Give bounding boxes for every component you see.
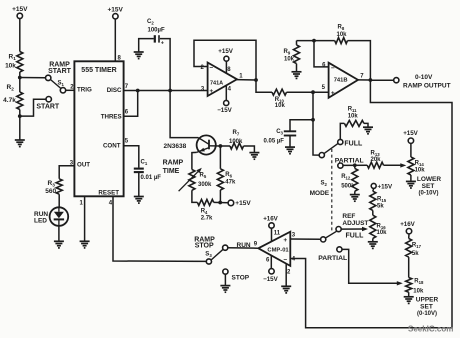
resistor R1 [17, 52, 23, 73]
svg-text:0.05 µF: 0.05 µF [264, 139, 285, 145]
U3 plus symbol [283, 237, 287, 244]
svg-text:555 TIMER: 555 TIMER [81, 67, 116, 74]
ground (left column) [15, 140, 25, 147]
label START [36, 104, 60, 111]
pin label RESET [98, 190, 119, 197]
label R16 10k [377, 223, 388, 236]
wire CONT to C1 [124, 146, 139, 168]
U3 minus symbol [283, 256, 287, 263]
LED run (D1) [50, 207, 69, 226]
svg-text:PARTIAL: PARTIAL [335, 157, 364, 164]
svg-text:−: − [331, 65, 335, 72]
wire R12 to ground [354, 191, 356, 194]
wire collector junction to R6 [219, 146, 221, 169]
label R10 10k [275, 97, 286, 109]
svg-text:R12: R12 [341, 174, 351, 181]
label R17 5k [412, 242, 422, 256]
svg-text:STOP: STOP [232, 275, 250, 282]
ground (R7) [249, 153, 259, 160]
svg-text:SeekIC.com: SeekIC.com [408, 325, 453, 334]
U3 pin 2 label [287, 270, 291, 276]
label C1 0.01uF [141, 160, 162, 182]
capacitor C1 [134, 169, 144, 173]
wire R12 top [354, 165, 356, 168]
svg-text:100µF: 100µF [148, 28, 165, 34]
svg-text:ADJUST: ADJUST [342, 220, 368, 227]
svg-text:10k: 10k [377, 230, 388, 236]
svg-text:+: + [331, 90, 335, 97]
wire R9 top [296, 41, 298, 45]
node R12 junction [353, 163, 357, 167]
svg-text:R17: R17 [412, 242, 422, 249]
svg-text:+15V: +15V [235, 200, 251, 207]
svg-text:R16: R16 [377, 223, 387, 230]
resistor R17 [406, 238, 412, 257]
label LOWER SET [417, 176, 441, 197]
svg-text:TRIG: TRIG [77, 86, 92, 93]
svg-text:RESET: RESET [98, 190, 119, 197]
node DISC junction B [168, 89, 172, 93]
pin number 2 [70, 84, 74, 90]
wire pin 8 [114, 19, 116, 61]
svg-text:47k: 47k [225, 180, 236, 186]
svg-text:10k: 10k [336, 32, 347, 38]
svg-text:R18: R18 [414, 279, 424, 286]
svg-text:FULL: FULL [344, 140, 363, 147]
label RAMP START [48, 61, 72, 75]
pin number 7 [125, 84, 129, 90]
wire RUN to CMP-01 pin 9 [228, 247, 258, 250]
capacitor C3 [284, 131, 296, 135]
power terminal +15V (top left) [12, 6, 28, 18]
svg-text:R8: R8 [338, 25, 345, 32]
wire CMP-01 pin 11 [271, 228, 273, 241]
switch S3 pole [206, 259, 211, 264]
svg-text:−15V: −15V [217, 107, 232, 114]
U3 pin 9 label [254, 241, 258, 247]
label R12 500k [341, 174, 355, 190]
svg-text:R14: R14 [415, 160, 425, 167]
wire 741A pin 8 [225, 61, 227, 73]
label S3 [205, 251, 212, 258]
ground (R12) [350, 195, 360, 202]
svg-text:S1: S1 [58, 81, 65, 88]
svg-text:+15V: +15V [12, 6, 28, 13]
wire 741A output [237, 79, 256, 81]
U2 pin 6 label [322, 62, 326, 68]
label R1 10k [5, 54, 16, 70]
label R15 5k [377, 197, 387, 210]
wire pin 1 to ground [84, 196, 86, 241]
wire C3 branch [290, 120, 313, 131]
svg-text:CONT: CONT [103, 143, 121, 150]
wire R18 to ground [408, 292, 410, 297]
svg-text:+15V: +15V [108, 7, 124, 14]
comparator U3 CMP-01 [258, 232, 290, 266]
wire 741B output [358, 79, 370, 81]
wire R7 to ground [244, 146, 255, 153]
U2 minus symbol [331, 65, 335, 72]
label C2 plus [161, 41, 164, 47]
wire FULL wiper arrow [341, 227, 368, 231]
node collector junction [219, 144, 223, 148]
wire junction to R7 [220, 145, 230, 147]
node R4/R6 junction [218, 201, 222, 205]
label R5 300k [198, 173, 212, 189]
svg-text:+15V: +15V [403, 130, 418, 137]
U3 pin 11 label [274, 230, 281, 236]
ground (C2) [134, 52, 144, 59]
label 2N3638 [164, 143, 187, 150]
switch S1 contact [60, 88, 65, 93]
wire STOP to ground [224, 274, 226, 285]
wire C1 to ground [138, 172, 140, 196]
switch S1 arm [51, 80, 61, 89]
wire DISC rail [124, 90, 208, 92]
svg-text:0-10V: 0-10V [415, 74, 433, 81]
svg-text:C2: C2 [147, 19, 154, 26]
wire LED to ground [58, 226, 60, 241]
wire R9 to ground [296, 64, 298, 72]
wire R6 to R4 junction [219, 190, 221, 202]
wire START to junction [20, 99, 46, 116]
ground (C3) [285, 147, 295, 154]
switch S2a arm [324, 144, 338, 154]
svg-text:−: − [209, 64, 213, 71]
node DISC junction A [136, 89, 140, 93]
resistor R16 (REF ADJUST pot) [370, 215, 376, 238]
resistor R5 (RAMP TIME pot) [189, 170, 195, 191]
U1 pin 4 label [228, 87, 232, 93]
svg-text:+: + [209, 88, 213, 95]
svg-text:4.7k: 4.7k [3, 97, 16, 104]
label R8 10k [336, 25, 347, 39]
U1 minus symbol [209, 64, 213, 71]
switch S3 arm [211, 249, 223, 260]
wire CMP-01 pin 2 to ground [285, 264, 287, 287]
svg-text:20k: 20k [371, 157, 382, 163]
capacitor C2 [155, 35, 159, 42]
node 741B output junction [369, 78, 373, 82]
label R2 4.7k [3, 84, 16, 104]
pin number 5 [125, 138, 129, 144]
node pin5/C3 junction [311, 90, 315, 94]
wire R15 to R16 [372, 210, 374, 215]
wire ramp to CMP-01 pin 4 (long loop) [290, 80, 452, 328]
label 0-10V RAMP OUTPUT [403, 74, 451, 90]
label R11 10k [348, 107, 359, 120]
svg-text:S2: S2 [321, 181, 328, 188]
wire C2 left to ground [139, 39, 154, 52]
wire emitter to R5 [192, 152, 197, 169]
svg-text:+16V: +16V [263, 215, 278, 222]
resistor R8 (741B feedback) [335, 38, 348, 44]
power terminal +15V (R14) [403, 130, 418, 143]
svg-text:REF: REF [342, 213, 355, 220]
wire R4 to +15V [214, 201, 228, 203]
svg-text:C1: C1 [141, 160, 148, 167]
resistor R4 [197, 199, 213, 205]
svg-text:300k: 300k [198, 182, 212, 188]
svg-text:LED: LED [34, 218, 47, 225]
wire PARTIAL to R18 wiper [342, 249, 403, 285]
power terminal +16V (R17) [400, 221, 415, 234]
svg-text:RAMP: RAMP [163, 160, 184, 167]
IC 555 timer box [74, 61, 123, 196]
pin number 6 [125, 110, 129, 116]
node junction R1/R2 [18, 76, 22, 80]
wire R15 top [372, 188, 375, 191]
node C3 branch junction [311, 118, 315, 122]
terminal START [46, 97, 51, 102]
svg-text:R9: R9 [284, 49, 291, 56]
U3 pin 3 label [292, 233, 296, 239]
resistor R9 [294, 45, 300, 64]
wire S1 contact to TRIG [66, 89, 75, 91]
wire 741A feedback [194, 40, 256, 80]
svg-text:741A: 741A [210, 80, 223, 86]
svg-text:2.7k: 2.7k [201, 216, 213, 222]
svg-text:5k: 5k [377, 204, 384, 210]
svg-text:+15V: +15V [378, 183, 393, 190]
switch S2a pole [319, 153, 324, 158]
label C3 0.05uF [264, 129, 285, 145]
label RAMP STOP [194, 236, 215, 249]
label FULL (lower) [346, 232, 365, 239]
U1 pin 8 label [227, 67, 231, 73]
resistor R15 [370, 191, 376, 210]
svg-text:+15V: +15V [218, 48, 233, 55]
svg-text:START: START [36, 104, 60, 111]
switch S2a FULL contact [338, 139, 343, 144]
node 741B fb junction [312, 39, 316, 43]
power terminal -15V (741A) [217, 100, 232, 114]
switch S2a PARTIAL contact [338, 163, 343, 168]
pin number 3 [70, 161, 74, 167]
svg-text:10k: 10k [348, 114, 359, 120]
svg-text:741B: 741B [334, 77, 348, 83]
wire R2 to ground [19, 110, 21, 141]
wire FULL to R11 [340, 123, 344, 139]
wire 741A pin 4 [225, 85, 227, 100]
power terminal +15V (741A) [218, 48, 233, 61]
wire CMP-01 pin 6 [270, 255, 272, 268]
svg-text:10k: 10k [5, 63, 16, 70]
label R7 100k [229, 130, 243, 145]
node 741A output junction [254, 78, 258, 82]
svg-text:SET: SET [422, 183, 435, 190]
power terminal +15V (555 pin 8) [108, 7, 124, 20]
svg-text:0.01 µF: 0.01 µF [141, 175, 162, 181]
U1 pin 2 label [200, 65, 204, 71]
S2 gang dashed link [331, 149, 333, 232]
power terminal +16V (CMP-01) [263, 215, 278, 228]
wire +15V to R14 [410, 143, 412, 157]
U2 pin 5 label [322, 85, 326, 91]
svg-text:C3: C3 [276, 129, 283, 136]
wire +15V to R1 [19, 19, 21, 52]
wire PARTIAL to R13 [343, 164, 367, 166]
op-amp U2 741B [329, 63, 358, 98]
resistor R11 [344, 120, 364, 126]
U1 plus symbol [209, 88, 213, 95]
svg-text:PARTIAL: PARTIAL [318, 255, 347, 262]
switch S2b PARTIAL contact [337, 247, 342, 252]
wire output to R10 [256, 80, 272, 92]
resistor R18 (pot) [406, 278, 412, 293]
wire +16V to R17 [408, 234, 410, 239]
wire to C3 node [313, 92, 319, 155]
power terminal +15V (emitter network) [228, 200, 251, 207]
ground (R9) [292, 72, 302, 79]
ground (C1) [134, 197, 144, 204]
label S2 MODE [310, 181, 330, 197]
label PARTIAL (upper) [335, 157, 364, 164]
svg-text:SET: SET [420, 303, 433, 310]
pin label DISC [107, 87, 122, 94]
U1 pin 3 label [201, 87, 205, 93]
label RUN [237, 242, 251, 249]
svg-text:+: + [161, 41, 164, 47]
U2 plus symbol [331, 90, 335, 97]
label R14 10k [415, 160, 426, 173]
ground (R18) [404, 297, 414, 304]
svg-text:100k: 100k [229, 139, 243, 145]
label R9 10k [284, 49, 295, 63]
switch S2b FULL contact [336, 227, 341, 232]
svg-text:DISC: DISC [107, 87, 122, 94]
wire R10 to 741B pin 5 [287, 91, 329, 93]
wire 741B pin 6 [314, 41, 329, 67]
wire R17 to R18 [408, 257, 410, 277]
pin number 1 [80, 200, 84, 206]
U3 pin 4 label [292, 257, 296, 263]
wire R11 to ground [364, 123, 368, 127]
U3 pin 6 label [266, 258, 270, 264]
label RUN LED [34, 211, 48, 225]
ground (CMP-01 pin 2) [281, 286, 291, 293]
transistor Q1 2N3638 [197, 135, 221, 154]
label R13 20k [371, 151, 382, 164]
resistor R6 [217, 169, 223, 190]
label R3 560 [45, 180, 56, 195]
label R6 47k [225, 172, 236, 186]
switch S3 RUN contact [223, 245, 228, 250]
pin number 8 [118, 55, 122, 61]
power terminal +15V (R15) [371, 183, 393, 190]
label RAMP TIME [163, 160, 184, 175]
wire C2 right to DISC node [160, 39, 170, 91]
svg-text:+16V: +16V [400, 221, 415, 228]
wire C3 to ground [289, 136, 291, 148]
wire R5 to R4 [192, 190, 198, 202]
svg-text:−15V: −15V [263, 276, 278, 283]
svg-text:R11: R11 [348, 107, 357, 114]
wire R3 to LED [58, 194, 60, 207]
wire OUT to R3 [59, 166, 75, 179]
U2 pin 7 label [360, 73, 364, 79]
pin label THRES [101, 114, 122, 121]
label S1 [58, 81, 65, 88]
svg-text:R6: R6 [225, 172, 232, 179]
svg-text:5k: 5k [412, 251, 419, 257]
power terminal -15V (CMP-01) [263, 269, 278, 283]
svg-text:11: 11 [274, 230, 281, 236]
ground (555 pin 1) [80, 241, 90, 248]
pin number 4 [109, 200, 113, 206]
wire R14 to ground [410, 175, 412, 181]
svg-text:MODE: MODE [310, 190, 330, 197]
resistor R12 [352, 168, 358, 191]
wire CMP-01 pin 3 to S2b pole [290, 238, 320, 240]
resistor R14 (pot) [408, 157, 414, 175]
svg-text:10k: 10k [413, 288, 424, 294]
pin label OUT [77, 162, 90, 169]
svg-text:R7: R7 [233, 130, 240, 137]
svg-text:OUT: OUT [77, 162, 90, 169]
svg-text:RAMP OUTPUT: RAMP OUTPUT [403, 83, 451, 90]
watermark [408, 325, 453, 334]
pin label TRIG [77, 86, 92, 93]
op-amp U1 741A [208, 63, 237, 97]
ground (STOP) [220, 286, 230, 293]
svg-text:THRES: THRES [101, 114, 122, 121]
resistor R7 [230, 143, 244, 149]
label PARTIAL (lower) [318, 255, 347, 262]
svg-text:R15: R15 [377, 197, 387, 204]
svg-text:−: − [283, 256, 287, 263]
wire R16 to ground [372, 238, 374, 241]
wire R1 to R2 [19, 72, 21, 92]
switch S1 pole [46, 75, 51, 80]
svg-text:S3: S3 [205, 251, 212, 258]
label R4 2.7k [201, 209, 213, 222]
wire output to terminal [370, 79, 393, 81]
resistor R10 [272, 89, 287, 95]
label R18 10k [413, 279, 424, 295]
label STOP [232, 275, 250, 282]
resistor R13 [367, 162, 383, 168]
label C2 100uF [147, 19, 165, 34]
label 555 TIMER [81, 67, 116, 74]
wire pin 4 to S3 pole [113, 196, 206, 261]
svg-text:560: 560 [45, 188, 56, 195]
switch S2b pole [321, 237, 326, 242]
svg-text:10k: 10k [415, 168, 426, 174]
pin label CONT [103, 143, 121, 150]
svg-text:(0-10V): (0-10V) [417, 311, 437, 317]
R5 wiper arrow [179, 168, 202, 191]
node junction R2/START [18, 114, 22, 118]
svg-text:TIME: TIME [163, 168, 180, 175]
wire fb rail left [297, 40, 335, 42]
label FULL (upper) [344, 140, 363, 147]
output terminal RAMP OUTPUT [394, 78, 399, 83]
svg-text:R5: R5 [200, 173, 207, 180]
svg-text:CMP-01: CMP-01 [267, 247, 289, 253]
switch S2b arm [326, 231, 337, 238]
wire fb rail right [348, 41, 371, 80]
resistor R2 [17, 92, 23, 110]
label REF ADJUST [342, 213, 368, 227]
wire R13 wiper arrow [384, 163, 407, 167]
resistor R3 [56, 179, 62, 194]
svg-text:10k: 10k [284, 57, 295, 63]
ground (R14) [406, 181, 416, 188]
svg-text:R4: R4 [201, 209, 208, 216]
switch S3 STOP contact [223, 269, 228, 274]
wire DISC to THRES loop [124, 91, 138, 117]
